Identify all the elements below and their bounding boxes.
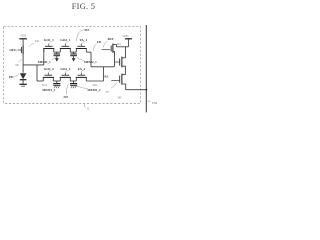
- svg-text:GO1_1: GO1_1: [44, 38, 54, 42]
- label MEM1_2: [42, 84, 56, 92]
- svg-text:GO1_2: GO1_2: [44, 67, 54, 71]
- label MEM2_1: [77, 57, 97, 63]
- node FD wires: [91, 52, 114, 81]
- transistor GO1_2: [43, 73, 54, 81]
- pixel boundary (dashed): [4, 27, 141, 104]
- svg-text:M15: M15: [92, 84, 98, 87]
- transistor OFG: [9, 45, 23, 54]
- ref M3: [76, 28, 89, 41]
- label GO1_2: [44, 67, 54, 73]
- label SEL: [103, 74, 117, 88]
- svg-text:TA_2: TA_2: [78, 67, 86, 71]
- wire PD node bus: [23, 49, 44, 82]
- capacitor MEM2_2: [70, 81, 77, 85]
- wire output to VSL: [126, 89, 147, 91]
- transistor GO1_1: [43, 44, 54, 53]
- svg-text:TA_1: TA_1: [79, 38, 87, 42]
- label GO2_1: [60, 38, 70, 44]
- transistor GO2_1: [60, 44, 71, 53]
- svg-text:FIG. 5: FIG. 5: [72, 2, 95, 11]
- svg-text:OFG: OFG: [9, 48, 17, 52]
- svg-text:M8: M8: [118, 97, 122, 100]
- ref M2: [29, 39, 40, 47]
- svg-text:M1: M1: [15, 64, 19, 67]
- ref 11: [85, 104, 90, 111]
- label VSL: [147, 101, 157, 105]
- svg-text:GO2_2: GO2_2: [60, 67, 70, 71]
- ref M5: [63, 84, 68, 99]
- label GO2_2: [60, 67, 70, 73]
- svg-text:FD: FD: [97, 40, 102, 44]
- label TA_2: [78, 67, 86, 73]
- junction dot: [145, 89, 147, 91]
- svg-text:SEL: SEL: [103, 74, 109, 78]
- transistor GO2_2: [60, 73, 71, 81]
- ground hatch MEM2_2: [71, 86, 77, 89]
- svg-text:M12: M12: [42, 84, 48, 87]
- transistor TA_2: [76, 73, 87, 81]
- svg-text:MEM2_2: MEM2_2: [88, 88, 101, 92]
- label FD: [93, 40, 101, 51]
- svg-text:MEM1_2: MEM1_2: [42, 88, 55, 92]
- label RST: [103, 37, 114, 47]
- label MEM1_1: [38, 57, 55, 63]
- wire bottom row bus: [37, 80, 103, 82]
- svg-text:VSL: VSL: [152, 101, 158, 105]
- svg-text:VDD: VDD: [20, 34, 26, 37]
- svg-text:GO2_1: GO2_1: [60, 38, 70, 42]
- power VDD symbol right: [122, 35, 132, 47]
- label PD: [9, 75, 19, 79]
- svg-text:MEM2_1: MEM2_1: [84, 60, 97, 64]
- transistor SEL: [111, 74, 125, 90]
- svg-text:M3: M3: [84, 28, 89, 32]
- vertical signal line VSL: [145, 25, 147, 112]
- svg-text:M5: M5: [63, 95, 68, 99]
- svg-text:MEM1_1: MEM1_1: [38, 60, 51, 64]
- capacitor MEM1_2: [53, 81, 60, 85]
- wire top row bus: [54, 51, 91, 53]
- ground hatch MEM1_2: [54, 86, 60, 89]
- ref M1: [15, 60, 21, 67]
- ground under PD: [19, 84, 26, 86]
- svg-text:M2: M2: [35, 39, 40, 43]
- label TA_1: [79, 38, 87, 44]
- transistor TA_1: [76, 44, 87, 53]
- capacitor MEM2_1: [70, 52, 77, 62]
- label GO1_1: [44, 38, 54, 44]
- transistor RST: [102, 44, 117, 67]
- svg-text:RST: RST: [108, 37, 115, 41]
- capacitor MEM1_1: [54, 52, 61, 62]
- wire VDD rail: [117, 46, 129, 48]
- label MEM2_2: [77, 84, 101, 92]
- svg-text:PD: PD: [9, 75, 14, 79]
- photodiode PD: [20, 73, 27, 84]
- svg-text:M4: M4: [117, 43, 121, 46]
- svg-text:VDD: VDD: [122, 35, 128, 38]
- transistor AMP: [114, 47, 125, 75]
- svg-text:M7: M7: [106, 91, 110, 94]
- svg-text:11: 11: [86, 107, 89, 111]
- power VDD symbol left: [19, 34, 27, 45]
